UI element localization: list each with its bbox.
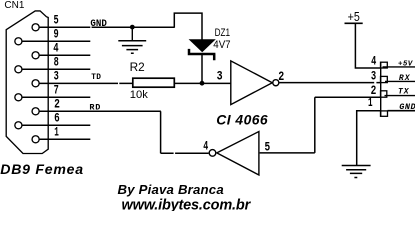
svg-text:CN1: CN1 (4, 0, 24, 11)
wire pin8 stub (22, 68, 90, 70)
connector CN1 DB9 body outline (6, 11, 48, 154)
svg-text:9: 9 (54, 28, 59, 42)
ground symbol 1 stem (131, 27, 133, 40)
ground symbol 2 bars (342, 166, 371, 178)
wire pin1 stub (39, 138, 90, 140)
svg-text:10k: 10k (130, 89, 148, 101)
wire pin5 to GND net (39, 26, 174, 28)
inverter gate B triangle (217, 132, 259, 176)
pin 7 circle (15, 94, 22, 101)
connector J1 pad pin2 (381, 91, 387, 97)
wire gate A output to connector RX (279, 82, 381, 84)
wire +5 down to connector pin4 (355, 23, 381, 68)
connector J1 pad pin3 (381, 76, 388, 82)
svg-text:1: 1 (54, 126, 59, 140)
junction dot TD/DZ1 (200, 81, 205, 86)
svg-text:4: 4 (53, 42, 59, 56)
gate B input bubble (209, 150, 216, 157)
svg-text:5: 5 (54, 14, 59, 28)
wire pin7 stub (22, 96, 90, 98)
svg-text:6: 6 (54, 112, 60, 126)
pin 4 circle (32, 52, 39, 59)
wire GND rail up and over to DZ1 (174, 13, 202, 39)
wire gate B to TX riser (260, 152, 315, 154)
svg-text:GND: GND (90, 18, 107, 30)
svg-text:CI 4066: CI 4066 (216, 112, 268, 128)
pin 3 circle (32, 80, 39, 87)
svg-text:7: 7 (54, 84, 59, 98)
power +5 bar (345, 22, 363, 24)
wire RD to gate B bubble (161, 152, 209, 154)
ground symbol 1 bars (118, 41, 146, 54)
svg-text:4: 4 (203, 140, 208, 154)
svg-text:DZ1: DZ1 (215, 27, 231, 39)
svg-text:R2: R2 (130, 60, 145, 74)
connector J1 pad pin1 (381, 111, 388, 116)
wire pin3 TD net to resistor (39, 82, 132, 84)
wire pin9 stub (22, 40, 90, 42)
svg-text:8: 8 (54, 56, 59, 70)
svg-text:www.ibytes.com.br: www.ibytes.com.br (122, 197, 252, 211)
svg-text:3: 3 (371, 70, 376, 84)
svg-text:1: 1 (368, 96, 373, 110)
op-amp U1A buffer CI 4066 gate A triangle (231, 61, 272, 105)
zener diode DZ1 triangle (189, 39, 216, 52)
pin 6 circle (15, 122, 22, 129)
wire pin6 stub (22, 124, 90, 126)
wire DZ1 cathode to TD junction (201, 54, 203, 83)
resistor R2 (133, 78, 175, 87)
wire RD net down (160, 111, 162, 153)
svg-text:3: 3 (217, 69, 223, 83)
pin 1 circle (32, 136, 39, 143)
pin 5 circle (32, 24, 39, 31)
connector J1 pad pin4 (381, 62, 388, 68)
pin 9 circle (15, 38, 22, 45)
svg-text:2: 2 (278, 70, 284, 84)
svg-text:TD: TD (91, 74, 101, 82)
gate A output bubble (273, 80, 279, 86)
pin 2 circle (32, 108, 39, 115)
wire resistor to buffer input (175, 82, 231, 84)
wire pin2 RD net (39, 110, 160, 112)
junction dot GND rail (130, 25, 135, 30)
svg-text:4: 4 (371, 54, 377, 68)
connector J1 vertical bar (380, 62, 382, 116)
wire connector pin1 GND to ground (357, 111, 381, 165)
svg-text:DB9 Femea: DB9 Femea (0, 161, 84, 177)
zener diode DZ1 cathode bar (189, 49, 215, 60)
svg-text:By Piava Branca: By Piava Branca (118, 182, 224, 197)
svg-text:2: 2 (54, 98, 60, 112)
svg-text:+5: +5 (348, 9, 360, 24)
pin 8 circle (15, 66, 22, 73)
wire TX riser (315, 97, 381, 153)
svg-text:4V7: 4V7 (213, 39, 230, 51)
wire pin4 stub (39, 54, 90, 56)
svg-text:RD: RD (89, 102, 101, 112)
svg-text:3: 3 (54, 70, 59, 84)
